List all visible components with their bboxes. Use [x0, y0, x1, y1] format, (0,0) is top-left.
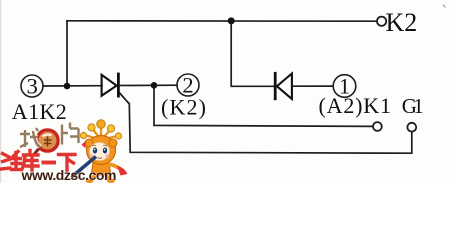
watermark character 片: [62, 123, 79, 145]
mascot head: [82, 136, 118, 165]
mascot crown: [80, 120, 121, 140]
terminal K2 open circle: [377, 17, 386, 26]
wire top K2 bus: [67, 20, 377, 22]
watermark character 一: [42, 161, 57, 165]
terminal 1 circle: [333, 75, 356, 98]
watermark character 找: [20, 128, 40, 147]
thyristor cathode bar: [117, 73, 120, 98]
mascot body: [86, 163, 128, 183]
svg-text:3: 3: [27, 74, 38, 99]
terminal 3 circle: [21, 75, 43, 97]
wire diode anode to terminal 1: [292, 85, 333, 87]
diode cathode bar: [274, 72, 277, 100]
wire node B down and right to terminal K1: [154, 85, 373, 126]
svg-text:G1: G1: [402, 94, 424, 118]
wire top junction down to diode cathode: [231, 21, 274, 86]
watermark character 下: [59, 155, 76, 171]
diode anode triangle: [277, 74, 292, 100]
terminal G1 open circle: [407, 123, 416, 132]
terminal 2 circle: [177, 74, 199, 96]
wire terminal3 to thyristor anode: [43, 85, 102, 87]
svg-text:A1K2: A1K2: [12, 99, 67, 124]
thyristor gate lead: [119, 93, 129, 105]
svg-text:(K2): (K2): [161, 95, 206, 120]
node A junction dot: [64, 83, 71, 90]
wire thyristor cathode to terminal 2: [120, 84, 177, 86]
node B junction dot: [151, 82, 158, 89]
thyristor anode triangle: [102, 75, 117, 96]
watermark character 库: [22, 151, 38, 171]
terminal K1 open circle: [373, 122, 382, 131]
svg-text:www.dzsc.com: www.dzsc.com: [21, 167, 117, 183]
mascot pen: [74, 157, 96, 176]
scan speck top right: [443, 5, 446, 8]
wire left vertical from node A to top bus: [66, 21, 68, 86]
scan edge left: [0, 0, 1, 183]
watermark magnifier ring: [34, 130, 59, 155]
svg-text:K2: K2: [386, 8, 418, 37]
svg-text:(A2)K1: (A2)K1: [319, 93, 392, 118]
wire gate bottom run to terminal G1: [129, 104, 412, 154]
watermark character 维: [2, 152, 22, 170]
node C junction dot (top bus): [228, 17, 235, 24]
